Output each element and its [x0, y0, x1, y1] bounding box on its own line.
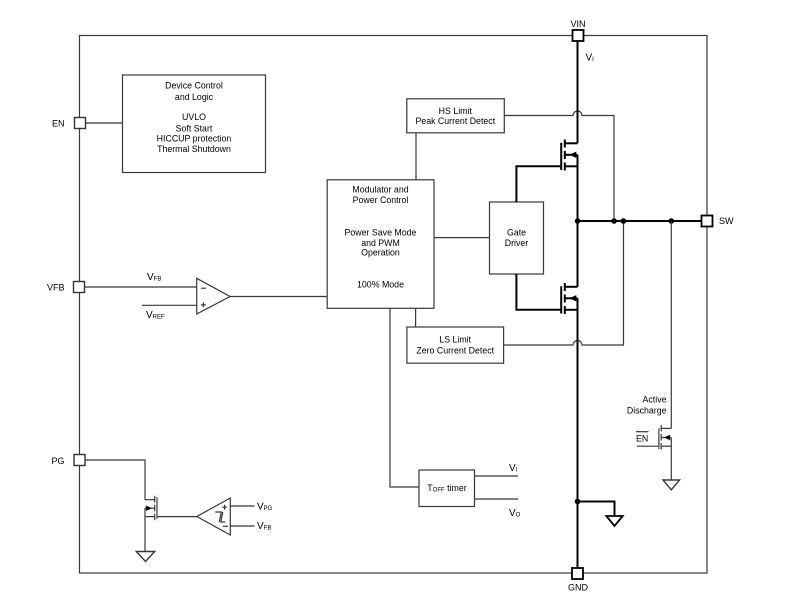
- svg-text:VIN: VIN: [570, 19, 585, 29]
- svg-text:and PWM: and PWM: [361, 238, 400, 248]
- label VFB: [47, 282, 65, 292]
- svg-text:Driver: Driver: [505, 238, 529, 248]
- label VI timer: [509, 463, 518, 474]
- pin GND: [572, 568, 583, 579]
- label net VPG: [257, 501, 273, 512]
- pin SW: [702, 216, 713, 227]
- wire EN label to Q4 gate: [637, 445, 658, 447]
- wire Gate Driver to Q2 gate: [516, 274, 560, 310]
- svg-text:Modulator and: Modulator and: [352, 185, 408, 195]
- wire Modulator to TOFF timer: [390, 308, 419, 487]
- block HS Limit Peak Current Detect: [407, 99, 505, 133]
- block Device Control and Logic: [123, 75, 266, 173]
- transistor Q3 PG open-drain NMOS (mirrored): [145, 496, 157, 552]
- svg-text:VFB: VFB: [47, 282, 65, 292]
- node junction GND branch: [575, 499, 581, 505]
- wire VPG input to U2: [230, 505, 254, 507]
- label SW: [719, 216, 734, 226]
- block Gate Driver: [490, 202, 544, 274]
- svg-text:SW: SW: [719, 216, 734, 226]
- svg-text:Device Control: Device Control: [165, 81, 223, 91]
- label VIN: [570, 19, 585, 29]
- ground symbol (power ground): [606, 516, 622, 526]
- ground symbol Q4 source: [663, 480, 680, 490]
- transistor Q4 active discharge NMOS: [659, 425, 671, 480]
- wire PG to Q3 drain: [85, 460, 145, 500]
- label net VREF: [146, 310, 165, 321]
- wire VFB to comparator minus input: [85, 286, 197, 288]
- svg-text:Gate: Gate: [507, 227, 526, 237]
- wire VIN to Q1 drain: [577, 41, 579, 143]
- node junction Q1/Q2 at SW: [575, 218, 581, 224]
- label Active Discharge: [627, 394, 667, 415]
- svg-text:Zero Current Detect: Zero Current Detect: [416, 346, 494, 356]
- wire U1 output to Modulator: [230, 296, 327, 298]
- block TOFF timer: [419, 470, 475, 507]
- wire U2 output to Q3 gate: [158, 516, 197, 518]
- svg-text:Discharge: Discharge: [627, 405, 667, 415]
- label EN: [52, 118, 65, 128]
- pin VIN: [573, 30, 584, 41]
- svg-text:HS Limit: HS Limit: [439, 106, 473, 116]
- wire Modulator to Gate Driver: [434, 237, 490, 239]
- svg-text:Active: Active: [643, 394, 667, 404]
- node junction HS sense at SW: [611, 218, 617, 224]
- label VO timer: [509, 508, 521, 519]
- svg-text:Power Save Mode: Power Save Mode: [345, 227, 417, 237]
- pin VFB: [74, 282, 85, 293]
- transistor Q2 low-side NMOS: [561, 283, 577, 314]
- wire TOFF output VO: [475, 498, 519, 500]
- wire LS Limit to Modulator: [415, 308, 417, 327]
- pin PG: [74, 455, 85, 466]
- block Modulator and Power Control: [327, 180, 434, 308]
- svg-text:EN: EN: [636, 434, 648, 444]
- wire HS Limit sense to SW node (with hop over VIN line): [504, 111, 614, 221]
- wire TOFF output VI: [475, 475, 519, 477]
- svg-text:and Logic: and Logic: [175, 92, 214, 102]
- wire EN to Device Control: [86, 122, 123, 124]
- svg-text:LS Limit: LS Limit: [439, 334, 471, 344]
- svg-text:UVLO: UVLO: [182, 112, 206, 122]
- svg-text:GND: GND: [568, 583, 589, 593]
- wire GND branch to ground: [578, 502, 615, 517]
- label EN gate of Q4 with overline: [636, 432, 649, 444]
- label net VI: [586, 53, 595, 64]
- wire LS Limit sense to SW node (with hop over GND line): [504, 221, 624, 345]
- svg-text:100% Mode: 100% Mode: [357, 280, 404, 290]
- ground symbol Q3 source: [136, 552, 154, 562]
- comparator U2 PG with hysteresis (mirrored): [197, 498, 231, 535]
- wire SW to Q4 drain: [670, 221, 672, 428]
- wire VREF to comparator plus input: [142, 304, 197, 306]
- IC outline border: [80, 36, 708, 574]
- svg-text:Operation: Operation: [361, 247, 400, 257]
- block LS Limit Zero Current Detect: [407, 327, 504, 363]
- svg-text:Soft Start: Soft Start: [176, 123, 213, 133]
- label net VFB: [147, 272, 161, 283]
- node junction LS sense at SW: [621, 218, 627, 224]
- transistor Q1 high-side NMOS: [561, 140, 577, 171]
- wire HS Limit to Modulator: [415, 133, 417, 180]
- label net VFB at U2: [257, 521, 271, 532]
- svg-text:Peak Current Detect: Peak Current Detect: [415, 116, 495, 126]
- wire Gate Driver to Q1 gate: [516, 166, 560, 202]
- wire Q2 source to GND pin: [577, 298, 579, 568]
- svg-text:HICCUP protection: HICCUP protection: [157, 134, 232, 144]
- wire VFB input to U2: [230, 525, 254, 527]
- svg-text:EN: EN: [52, 118, 65, 128]
- node junction active discharge at SW: [669, 218, 675, 224]
- pin EN: [75, 118, 86, 129]
- wire Q1 source to SW node: [577, 155, 579, 221]
- label PG: [51, 456, 64, 466]
- svg-text:PG: PG: [51, 456, 64, 466]
- label GND: [568, 583, 589, 593]
- svg-text:Thermal Shutdown: Thermal Shutdown: [157, 144, 231, 154]
- svg-text:Power Control: Power Control: [353, 195, 409, 205]
- comparator U1: [197, 278, 230, 314]
- wire SW to Q2 drain: [577, 221, 579, 287]
- wire SW bus: [578, 220, 702, 222]
